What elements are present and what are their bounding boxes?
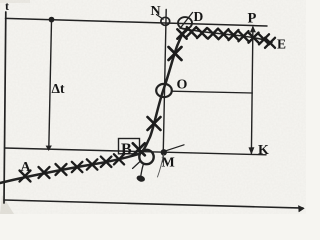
x marker a4 (72, 162, 83, 172)
box around B (119, 139, 140, 154)
x marker steep lower (148, 117, 161, 130)
x marker p8 (249, 33, 259, 43)
x marker p9 (259, 34, 269, 44)
x marker a6 (101, 157, 112, 167)
x marker p4 (208, 29, 218, 39)
x marker at E (265, 38, 275, 48)
svg-text:K: K (258, 143, 269, 158)
main S-curve lower and steep part (0, 31, 186, 183)
scan smudge top-left (0, 0, 30, 3)
thin pen tail to dot (158, 155, 164, 178)
delta-t vertical double arrow (49, 21, 52, 149)
ink blob (136, 174, 146, 182)
svg-text:O: O (177, 78, 188, 93)
x marker at B (133, 143, 145, 155)
svg-text:t: t (5, 0, 9, 13)
svg-text:A: A (21, 160, 32, 175)
circle D (178, 17, 192, 29)
circle M (139, 150, 153, 164)
svg-text:Δt: Δt (52, 81, 65, 96)
svg-text:M: M (162, 156, 175, 171)
P-K vertical double arrow (251, 27, 253, 154)
delta-t bottom arrowhead (46, 146, 52, 152)
curve plateau part (186, 30, 272, 42)
y-axis (4, 12, 6, 203)
horizontal line from O to P vertical (172, 91, 253, 93)
svg-text:E: E (277, 36, 286, 51)
P top arrowhead (250, 26, 256, 33)
node dot right of M (vertical line meets baseline) (161, 149, 167, 155)
pointer from D label through circle (180, 13, 193, 29)
x marker a2 (39, 167, 50, 178)
pen scratch below M circle (141, 164, 144, 176)
pen scratch tail left (133, 162, 141, 169)
K bottom arrowhead (249, 147, 255, 154)
x marker p7 (239, 31, 249, 41)
x marker p1 (177, 29, 186, 38)
x marker a3 (56, 164, 67, 175)
circle N (161, 17, 170, 25)
x marker p3 (197, 28, 207, 38)
x marker p5 (219, 29, 229, 39)
x marker p2 (187, 27, 196, 36)
delta-t top junction dot (49, 17, 55, 23)
x data markers (20, 27, 276, 181)
svg-text:P: P (248, 11, 257, 27)
top plateau extrapolation line (6, 18, 268, 26)
svg-text:N: N (151, 4, 161, 19)
x marker a1 (20, 171, 31, 182)
baseline extrapolation line (through B, M, to K) (5, 148, 267, 155)
scan smudge bottom-left (0, 195, 14, 214)
x marker a7 (114, 154, 124, 164)
svg-text:D: D (194, 9, 204, 24)
x-axis arrowhead (299, 206, 305, 212)
x marker p6 (229, 30, 239, 40)
x marker steep upper (169, 47, 182, 60)
x-axis (time) (4, 200, 303, 208)
pointer from N label to circle (157, 15, 164, 20)
x marker a5 (87, 159, 98, 169)
short stroke from dot up-right (167, 145, 185, 151)
circle O (156, 84, 172, 97)
vertical line through inflection (N to M dot) (163, 10, 166, 163)
